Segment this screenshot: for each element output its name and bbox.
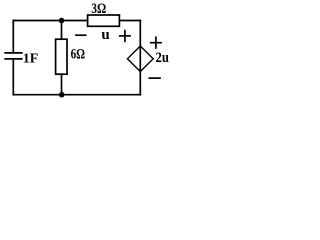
minus sign of source 2u (149, 77, 160, 79)
svg-text:2u: 2u (156, 50, 169, 66)
svg-text:u: u (101, 27, 109, 43)
svg-text:6Ω: 6Ω (71, 46, 86, 62)
wire middle branch lower (61, 74, 63, 95)
plus sign of u label (120, 31, 130, 42)
wire top-right segment (119, 20, 140, 22)
junction node top (59, 18, 65, 24)
wire right branch lower (139, 72, 141, 95)
wire middle branch upper (61, 21, 63, 40)
resistor 6Ω box (56, 39, 67, 74)
plus sign of source 2u (151, 37, 161, 48)
resistor 3Ω box (88, 15, 120, 26)
wire left edge upper (12, 21, 14, 53)
capacitor 1F plates (5, 53, 22, 59)
wire top-left segment (13, 20, 87, 22)
svg-text:3Ω: 3Ω (91, 1, 106, 17)
wire left edge lower (12, 59, 14, 95)
svg-text:1F: 1F (23, 52, 39, 67)
minus sign of u label (76, 34, 86, 36)
wire right branch upper (139, 21, 141, 47)
wire bottom (13, 94, 140, 96)
junction node bottom (59, 92, 65, 98)
dependent source 2u diamond (127, 46, 153, 72)
